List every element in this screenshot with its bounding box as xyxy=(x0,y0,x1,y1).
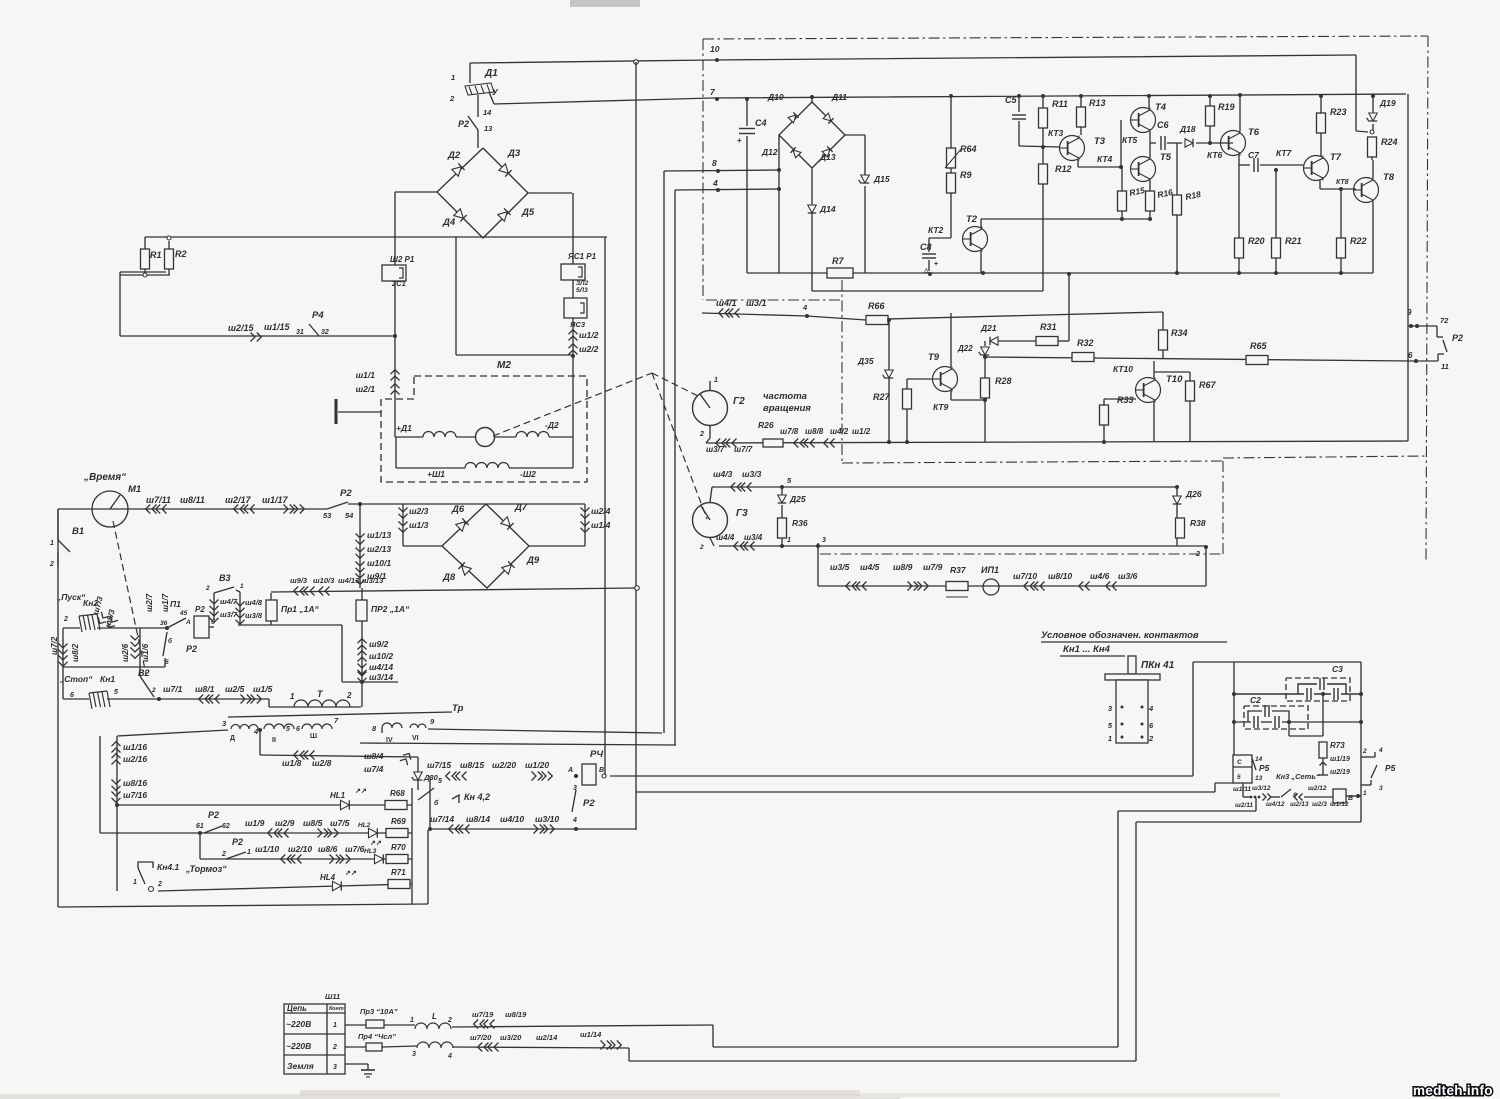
svg-text:36: 36 xyxy=(160,620,168,627)
svg-text:ш3/6: ш3/6 xyxy=(1118,571,1138,581)
svg-text:HL1: HL1 xyxy=(330,791,346,800)
svg-text:Т6: Т6 xyxy=(1248,127,1260,138)
svg-text:С6: С6 xyxy=(1157,120,1169,130)
svg-text:R71: R71 xyxy=(391,868,406,877)
svg-text:5: 5 xyxy=(286,726,290,733)
svg-text:5: 5 xyxy=(438,778,442,785)
svg-text:R64: R64 xyxy=(960,144,977,154)
svg-text:Р4: Р4 xyxy=(312,310,324,321)
svg-text:3: 3 xyxy=(412,1051,416,1058)
svg-text:ш7/9: ш7/9 xyxy=(923,562,943,572)
svg-text:↗↗: ↗↗ xyxy=(345,870,357,877)
svg-text:Ш2 Р1: Ш2 Р1 xyxy=(390,255,415,264)
svg-text:2: 2 xyxy=(49,561,54,568)
svg-text:ш2/20: ш2/20 xyxy=(492,760,516,770)
svg-text:4: 4 xyxy=(1148,704,1154,713)
svg-text:Р2: Р2 xyxy=(1452,333,1463,343)
svg-text:ш4/6: ш4/6 xyxy=(1090,571,1110,581)
svg-text:ш3/5: ш3/5 xyxy=(830,562,850,572)
svg-text:ш4/14: ш4/14 xyxy=(369,662,393,672)
svg-text:Р2: Р2 xyxy=(232,837,243,847)
svg-text:R66: R66 xyxy=(868,301,886,311)
svg-text:4: 4 xyxy=(253,727,259,736)
svg-text:R28: R28 xyxy=(995,376,1012,386)
svg-text:ш4/12: ш4/12 xyxy=(1266,801,1285,808)
svg-text:ш8/10: ш8/10 xyxy=(1048,571,1072,581)
svg-text:Цепь: Цепь xyxy=(287,1004,307,1013)
svg-text:R34: R34 xyxy=(1171,328,1188,338)
svg-text:Р2: Р2 xyxy=(340,488,352,499)
svg-text:2: 2 xyxy=(346,691,352,700)
svg-text:4: 4 xyxy=(447,1053,452,1060)
svg-text:ш1/1: ш1/1 xyxy=(356,370,376,380)
svg-text:31: 31 xyxy=(296,329,304,336)
svg-text:Р5: Р5 xyxy=(1259,763,1270,773)
svg-text:1: 1 xyxy=(451,73,455,82)
svg-text:2: 2 xyxy=(221,851,226,858)
svg-text:ш2/16: ш2/16 xyxy=(123,754,147,764)
svg-text:Т3: Т3 xyxy=(1094,136,1106,147)
svg-text:Р2: Р2 xyxy=(458,119,469,129)
svg-text:ш2/3: ш2/3 xyxy=(409,506,429,516)
svg-text:R22: R22 xyxy=(1350,236,1367,246)
svg-text:ш3/4: ш3/4 xyxy=(744,533,763,542)
svg-text:2С1: 2С1 xyxy=(391,279,406,288)
svg-text:R7: R7 xyxy=(832,256,844,266)
svg-text:2: 2 xyxy=(1195,551,1200,558)
svg-text:Д6: Д6 xyxy=(451,504,465,515)
svg-text:Условное обозначен. контактов: Условное обозначен. контактов xyxy=(1041,630,1199,641)
svg-text:Д10: Д10 xyxy=(767,92,784,102)
svg-text:11: 11 xyxy=(1441,362,1449,371)
svg-text:ш2/12: ш2/12 xyxy=(1308,785,1327,792)
svg-text:1: 1 xyxy=(247,849,251,856)
svg-text:ш1/20: ш1/20 xyxy=(525,760,549,770)
svg-text:ш1/10: ш1/10 xyxy=(255,844,279,854)
svg-text:~220В: ~220В xyxy=(286,1019,311,1029)
svg-text:ш3/10: ш3/10 xyxy=(535,814,559,824)
svg-text:Р2: Р2 xyxy=(583,798,595,809)
svg-text:ш10/2: ш10/2 xyxy=(369,651,393,661)
svg-text:ш1/19: ш1/19 xyxy=(1330,756,1350,763)
svg-text:ш7/5: ш7/5 xyxy=(330,818,350,828)
svg-text:ш7/7: ш7/7 xyxy=(734,445,753,454)
svg-text:Д30: Д30 xyxy=(423,773,439,782)
svg-text:14: 14 xyxy=(483,108,492,117)
svg-text:2: 2 xyxy=(63,616,68,623)
svg-text:С8: С8 xyxy=(920,242,932,252)
svg-text:ш8/2: ш8/2 xyxy=(71,643,80,662)
svg-text:Ш: Ш xyxy=(310,733,317,740)
svg-text:3: 3 xyxy=(1379,785,1383,792)
svg-text:R65: R65 xyxy=(1250,341,1268,351)
svg-text:б: б xyxy=(434,799,439,807)
svg-text:ш1/5: ш1/5 xyxy=(253,684,273,694)
svg-text:-Ш2: -Ш2 xyxy=(520,469,536,479)
svg-text:Д1: Д1 xyxy=(484,68,498,79)
svg-text:Д: Д xyxy=(230,735,235,742)
svg-text:В: В xyxy=(599,767,604,774)
svg-text:R20: R20 xyxy=(1248,236,1265,246)
svg-text:6: 6 xyxy=(296,726,300,733)
svg-text:ш3/1: ш3/1 xyxy=(746,298,767,308)
svg-text:КТ3: КТ3 xyxy=(1048,128,1064,138)
svg-text:ш1/9: ш1/9 xyxy=(245,818,265,828)
svg-text:32: 32 xyxy=(321,329,329,336)
svg-text:вращения: вращения xyxy=(763,403,811,414)
svg-text:1: 1 xyxy=(333,1022,337,1029)
svg-text:ш2/7: ш2/7 xyxy=(145,593,154,612)
svg-text:72: 72 xyxy=(1440,316,1449,325)
svg-text:В3: В3 xyxy=(219,573,231,583)
svg-text:9: 9 xyxy=(1407,308,1412,317)
svg-text:ш7/10: ш7/10 xyxy=(1013,571,1037,581)
svg-text:ш9/2: ш9/2 xyxy=(369,639,389,649)
svg-text:ш2/8: ш2/8 xyxy=(312,758,332,768)
svg-text:Д25: Д25 xyxy=(789,494,806,504)
svg-text:ш1/13: ш1/13 xyxy=(367,530,391,540)
svg-text:2: 2 xyxy=(157,881,162,888)
svg-text:ш8/19: ш8/19 xyxy=(505,1010,527,1019)
svg-text:Т7: Т7 xyxy=(1330,152,1342,163)
svg-text:2: 2 xyxy=(151,687,156,694)
svg-text:„Пуск“: „Пуск“ xyxy=(56,592,86,602)
svg-text:+Д1: +Д1 xyxy=(396,423,412,433)
svg-text:R19: R19 xyxy=(1218,102,1235,112)
svg-text:ш4/1: ш4/1 xyxy=(716,298,737,308)
svg-text:Г2: Г2 xyxy=(733,396,745,407)
svg-text:R1: R1 xyxy=(150,250,162,260)
svg-text:ш7/15: ш7/15 xyxy=(427,760,451,770)
svg-text:ш1/14: ш1/14 xyxy=(580,1030,602,1039)
svg-text:ш10/1: ш10/1 xyxy=(367,558,391,568)
svg-text:ш1/2: ш1/2 xyxy=(579,330,599,340)
svg-text:6: 6 xyxy=(70,692,74,699)
svg-text:Д21: Д21 xyxy=(980,323,997,333)
svg-text:ЗЛ2: ЗЛ2 xyxy=(576,280,589,287)
svg-text:R70: R70 xyxy=(391,843,406,852)
svg-text:Пр1 „1А“: Пр1 „1А“ xyxy=(281,604,320,614)
svg-text:ш1/2: ш1/2 xyxy=(852,427,871,436)
svg-text:А: А xyxy=(567,767,573,774)
svg-text:А: А xyxy=(185,619,191,626)
svg-text:Т8: Т8 xyxy=(1383,172,1395,183)
svg-text:4: 4 xyxy=(572,817,577,824)
svg-text:ш4/8: ш4/8 xyxy=(245,598,263,607)
svg-text:Д7: Д7 xyxy=(514,502,528,513)
svg-text:„Стоп“: „Стоп“ xyxy=(59,674,93,684)
svg-text:61: 61 xyxy=(196,823,204,830)
svg-text:М1: М1 xyxy=(128,484,141,495)
svg-text:Т2: Т2 xyxy=(966,214,978,225)
svg-text:1: 1 xyxy=(133,879,137,886)
svg-text:R67: R67 xyxy=(1199,380,1217,390)
svg-text:Д12: Д12 xyxy=(761,147,778,157)
svg-text:R38: R38 xyxy=(1190,518,1206,528)
svg-text:В1: В1 xyxy=(72,526,84,537)
svg-text:КТ2: КТ2 xyxy=(928,225,944,235)
svg-text:ш2/10: ш2/10 xyxy=(288,844,312,854)
svg-text:4: 4 xyxy=(1378,747,1383,754)
svg-text:ш1/11: ш1/11 xyxy=(1233,786,1251,793)
svg-text:5Л3: 5Л3 xyxy=(576,287,588,294)
svg-text:Д13: Д13 xyxy=(819,152,836,162)
svg-text:ЯС1 Р1: ЯС1 Р1 xyxy=(567,252,597,261)
svg-text:2: 2 xyxy=(205,585,210,592)
svg-text:2: 2 xyxy=(449,94,455,103)
svg-text:С3: С3 xyxy=(1332,664,1343,674)
svg-text:ш1/12: ш1/12 xyxy=(1330,801,1349,808)
svg-text:3: 3 xyxy=(333,1064,337,1071)
svg-text:ш4/4: ш4/4 xyxy=(716,533,735,542)
svg-text:ш2/2: ш2/2 xyxy=(579,344,599,354)
svg-text:частота: частота xyxy=(763,391,807,402)
svg-text:ПКн 41: ПКн 41 xyxy=(1141,660,1175,671)
svg-text:Д8: Д8 xyxy=(442,572,456,583)
svg-text:2: 2 xyxy=(699,431,704,438)
svg-text:4: 4 xyxy=(712,178,718,188)
svg-text:1: 1 xyxy=(787,537,791,544)
svg-text:Д3: Д3 xyxy=(507,148,521,159)
svg-text:ш4/2: ш4/2 xyxy=(830,427,849,436)
svg-text:П1: П1 xyxy=(170,599,181,609)
svg-text:КТ6: КТ6 xyxy=(1207,150,1223,160)
svg-text:II: II xyxy=(272,737,276,744)
svg-text:+Ш1: +Ш1 xyxy=(427,469,445,479)
svg-text:2: 2 xyxy=(447,1017,452,1024)
svg-text:VI: VI xyxy=(412,735,419,742)
svg-text:ш3/7: ш3/7 xyxy=(220,610,238,619)
svg-text:ш7/6: ш7/6 xyxy=(345,844,365,854)
svg-text:+: + xyxy=(737,136,742,145)
svg-text:„Тормоз“: „Тормоз“ xyxy=(185,864,227,874)
svg-text:С5: С5 xyxy=(1005,95,1017,105)
svg-text:45: 45 xyxy=(179,610,188,617)
svg-text:Ш11: Ш11 xyxy=(325,992,340,1001)
svg-text:HL2: HL2 xyxy=(358,822,371,829)
svg-text:R33: R33 xyxy=(1117,395,1134,405)
svg-text:ш2/5: ш2/5 xyxy=(225,684,245,694)
svg-text:Д18: Д18 xyxy=(1179,124,1196,134)
svg-text:R69: R69 xyxy=(391,817,406,826)
svg-text:ш8/11: ш8/11 xyxy=(180,495,205,505)
svg-text:ш8/8: ш8/8 xyxy=(805,427,824,436)
svg-text:Р5: Р5 xyxy=(1385,763,1396,773)
svg-text:↗↗: ↗↗ xyxy=(370,840,382,847)
svg-text:Т10: Т10 xyxy=(1166,374,1183,385)
svg-text:ш8/6: ш8/6 xyxy=(318,844,338,854)
svg-text:ш2/3: ш2/3 xyxy=(1312,801,1327,808)
svg-text:ш3/14: ш3/14 xyxy=(369,672,393,682)
svg-text:ш3/20: ш3/20 xyxy=(500,1033,522,1042)
svg-text:Д11: Д11 xyxy=(831,92,847,102)
svg-text:ш2/19: ш2/19 xyxy=(1330,769,1350,776)
svg-text:Д26: Д26 xyxy=(1185,489,1202,499)
svg-text:medteh.info: medteh.info xyxy=(1413,1083,1493,1098)
svg-text:3: 3 xyxy=(822,537,826,544)
svg-text:2: 2 xyxy=(699,544,704,551)
svg-text:ш3/8: ш3/8 xyxy=(245,611,263,620)
svg-text:ш2/4: ш2/4 xyxy=(591,506,611,516)
svg-text:R11: R11 xyxy=(1052,99,1068,109)
svg-text:R37: R37 xyxy=(950,565,967,575)
svg-text:L: L xyxy=(432,1012,437,1021)
svg-text:ш7/14: ш7/14 xyxy=(430,814,454,824)
svg-text:-Д2: -Д2 xyxy=(545,420,559,430)
svg-text:ш8/15: ш8/15 xyxy=(460,760,484,770)
svg-text:ш2/9: ш2/9 xyxy=(275,818,295,828)
svg-text:HL4: HL4 xyxy=(320,873,336,882)
svg-text:ш2/6: ш2/6 xyxy=(121,643,130,662)
svg-text:Д14: Д14 xyxy=(819,204,836,214)
svg-text:ш2/14: ш2/14 xyxy=(536,1033,558,1042)
svg-text:Конт: Конт xyxy=(329,1006,344,1012)
svg-text:R9: R9 xyxy=(960,170,972,180)
svg-text:R27: R27 xyxy=(873,392,891,402)
svg-text:С: С xyxy=(1237,759,1242,766)
svg-text:2: 2 xyxy=(332,1044,337,1051)
svg-text:ш7/1: ш7/1 xyxy=(163,684,183,694)
svg-text:Г3: Г3 xyxy=(736,508,748,519)
svg-text:ш10/3: ш10/3 xyxy=(313,576,335,585)
svg-text:„Время“: „Время“ xyxy=(83,472,126,483)
svg-text:Р2: Р2 xyxy=(186,644,197,654)
svg-text:КТ8: КТ8 xyxy=(1336,179,1349,186)
svg-text:Д5: Д5 xyxy=(521,207,535,218)
svg-text:Пр3 “10А”: Пр3 “10А” xyxy=(360,1007,398,1016)
svg-text:R68: R68 xyxy=(390,789,405,798)
svg-text:Кн4.1: Кн4.1 xyxy=(157,862,179,872)
svg-text:Д2: Д2 xyxy=(447,150,461,161)
svg-text:↗↗: ↗↗ xyxy=(355,788,367,795)
svg-text:ш2/15: ш2/15 xyxy=(228,323,255,333)
svg-text:ш7/19: ш7/19 xyxy=(472,1010,494,1019)
svg-text:6: 6 xyxy=(1408,351,1413,360)
svg-text:ш2/13: ш2/13 xyxy=(1290,801,1309,808)
svg-text:Д4: Д4 xyxy=(442,217,456,228)
svg-text:ш3/12: ш3/12 xyxy=(1252,785,1271,792)
svg-text:ш1/3: ш1/3 xyxy=(409,520,429,530)
svg-text:Кн1: Кн1 xyxy=(100,674,115,684)
svg-text:~220В: ~220В xyxy=(286,1041,311,1051)
svg-text:R13: R13 xyxy=(1089,98,1106,108)
svg-text:С7: С7 xyxy=(1248,150,1260,160)
svg-text:HL3: HL3 xyxy=(364,848,377,855)
svg-text:ш3/13: ш3/13 xyxy=(362,576,384,585)
svg-text:ш7/4: ш7/4 xyxy=(364,764,384,774)
svg-text:R73: R73 xyxy=(1330,741,1345,750)
svg-text:ш3/3: ш3/3 xyxy=(742,469,762,479)
svg-text:М2: М2 xyxy=(497,360,511,371)
svg-text:R12: R12 xyxy=(1055,164,1072,174)
svg-text:ш7/11: ш7/11 xyxy=(146,495,171,505)
svg-text:5: 5 xyxy=(114,689,118,696)
svg-text:ш4/13: ш4/13 xyxy=(338,576,360,585)
svg-text:Д22: Д22 xyxy=(957,344,973,353)
svg-text:54: 54 xyxy=(345,511,354,520)
svg-text:Кн 4,2: Кн 4,2 xyxy=(464,792,490,802)
svg-text:ш7/2: ш7/2 xyxy=(50,636,59,655)
svg-text:ш8/4: ш8/4 xyxy=(364,751,384,761)
svg-text:ш4/10: ш4/10 xyxy=(500,814,524,824)
svg-text:R32: R32 xyxy=(1077,338,1094,348)
svg-text:1: 1 xyxy=(290,692,295,701)
svg-text:R26: R26 xyxy=(758,420,774,430)
svg-text:1: 1 xyxy=(1363,790,1367,797)
svg-text:+: + xyxy=(934,261,938,268)
svg-text:IV: IV xyxy=(386,737,393,744)
svg-text:ш2/1: ш2/1 xyxy=(356,384,376,394)
svg-text:С4: С4 xyxy=(755,118,767,128)
svg-text:13: 13 xyxy=(1255,775,1263,782)
svg-text:ш1/16: ш1/16 xyxy=(123,742,147,752)
svg-text:ш8/5: ш8/5 xyxy=(303,818,323,828)
svg-text:ш2/11: ш2/11 xyxy=(1235,802,1253,809)
svg-text:1: 1 xyxy=(50,540,54,547)
svg-text:2: 2 xyxy=(1148,734,1154,743)
svg-text:R24: R24 xyxy=(1381,137,1398,147)
svg-text:Тр: Тр xyxy=(452,703,464,714)
svg-text:ш1/4: ш1/4 xyxy=(591,520,611,530)
svg-text:КТ7: КТ7 xyxy=(1276,148,1293,158)
svg-text:△: △ xyxy=(923,267,929,274)
svg-text:ИП1: ИП1 xyxy=(981,565,999,575)
svg-text:R21: R21 xyxy=(1285,236,1302,246)
svg-text:Земля: Земля xyxy=(287,1061,314,1071)
svg-text:ш4/5: ш4/5 xyxy=(860,562,880,572)
svg-text:Т4: Т4 xyxy=(1155,102,1167,113)
svg-text:53: 53 xyxy=(323,511,332,520)
svg-text:ш1/6: ш1/6 xyxy=(141,643,150,662)
svg-text:62: 62 xyxy=(222,823,230,830)
svg-text:1: 1 xyxy=(714,377,718,384)
svg-text:1: 1 xyxy=(240,583,244,590)
svg-text:ш3/7: ш3/7 xyxy=(706,445,725,454)
svg-text:ЯС3: ЯС3 xyxy=(569,320,586,329)
svg-text:13: 13 xyxy=(484,124,493,133)
svg-text:Д9: Д9 xyxy=(526,555,540,566)
svg-text:ш8/9: ш8/9 xyxy=(893,562,913,572)
svg-text:ш8/1: ш8/1 xyxy=(195,684,215,694)
svg-text:ш1/8: ш1/8 xyxy=(282,758,302,768)
svg-text:ш2/13: ш2/13 xyxy=(367,544,391,554)
svg-text:R36: R36 xyxy=(792,518,808,528)
svg-text:ш4/7: ш4/7 xyxy=(220,597,238,606)
svg-text:1: 1 xyxy=(1108,734,1112,743)
svg-text:Т5: Т5 xyxy=(1160,152,1172,163)
svg-text:4: 4 xyxy=(802,303,808,312)
svg-text:ПР2 „1А“: ПР2 „1А“ xyxy=(371,604,410,614)
svg-text:Д35: Д35 xyxy=(857,356,874,366)
svg-text:Р2: Р2 xyxy=(208,810,219,820)
svg-text:ш9/3: ш9/3 xyxy=(290,576,308,585)
svg-text:5: 5 xyxy=(1237,774,1241,781)
svg-text:1: 1 xyxy=(410,1017,414,1024)
svg-text:ш1/15: ш1/15 xyxy=(264,322,291,332)
svg-text:КТ4: КТ4 xyxy=(1097,154,1113,164)
svg-text:Т9: Т9 xyxy=(928,352,940,363)
svg-text:8: 8 xyxy=(712,158,717,168)
svg-text:10: 10 xyxy=(710,44,720,54)
svg-text:R2: R2 xyxy=(175,249,187,259)
svg-text:Д19: Д19 xyxy=(1379,98,1396,108)
svg-text:ш1/7: ш1/7 xyxy=(161,593,170,612)
svg-text:R23: R23 xyxy=(1330,107,1347,117)
svg-text:Кн3 „Сеть“: Кн3 „Сеть“ xyxy=(1276,772,1320,781)
svg-text:ш7/16: ш7/16 xyxy=(123,790,147,800)
svg-text:ш8/14: ш8/14 xyxy=(466,814,490,824)
svg-text:Д15: Д15 xyxy=(873,174,890,184)
